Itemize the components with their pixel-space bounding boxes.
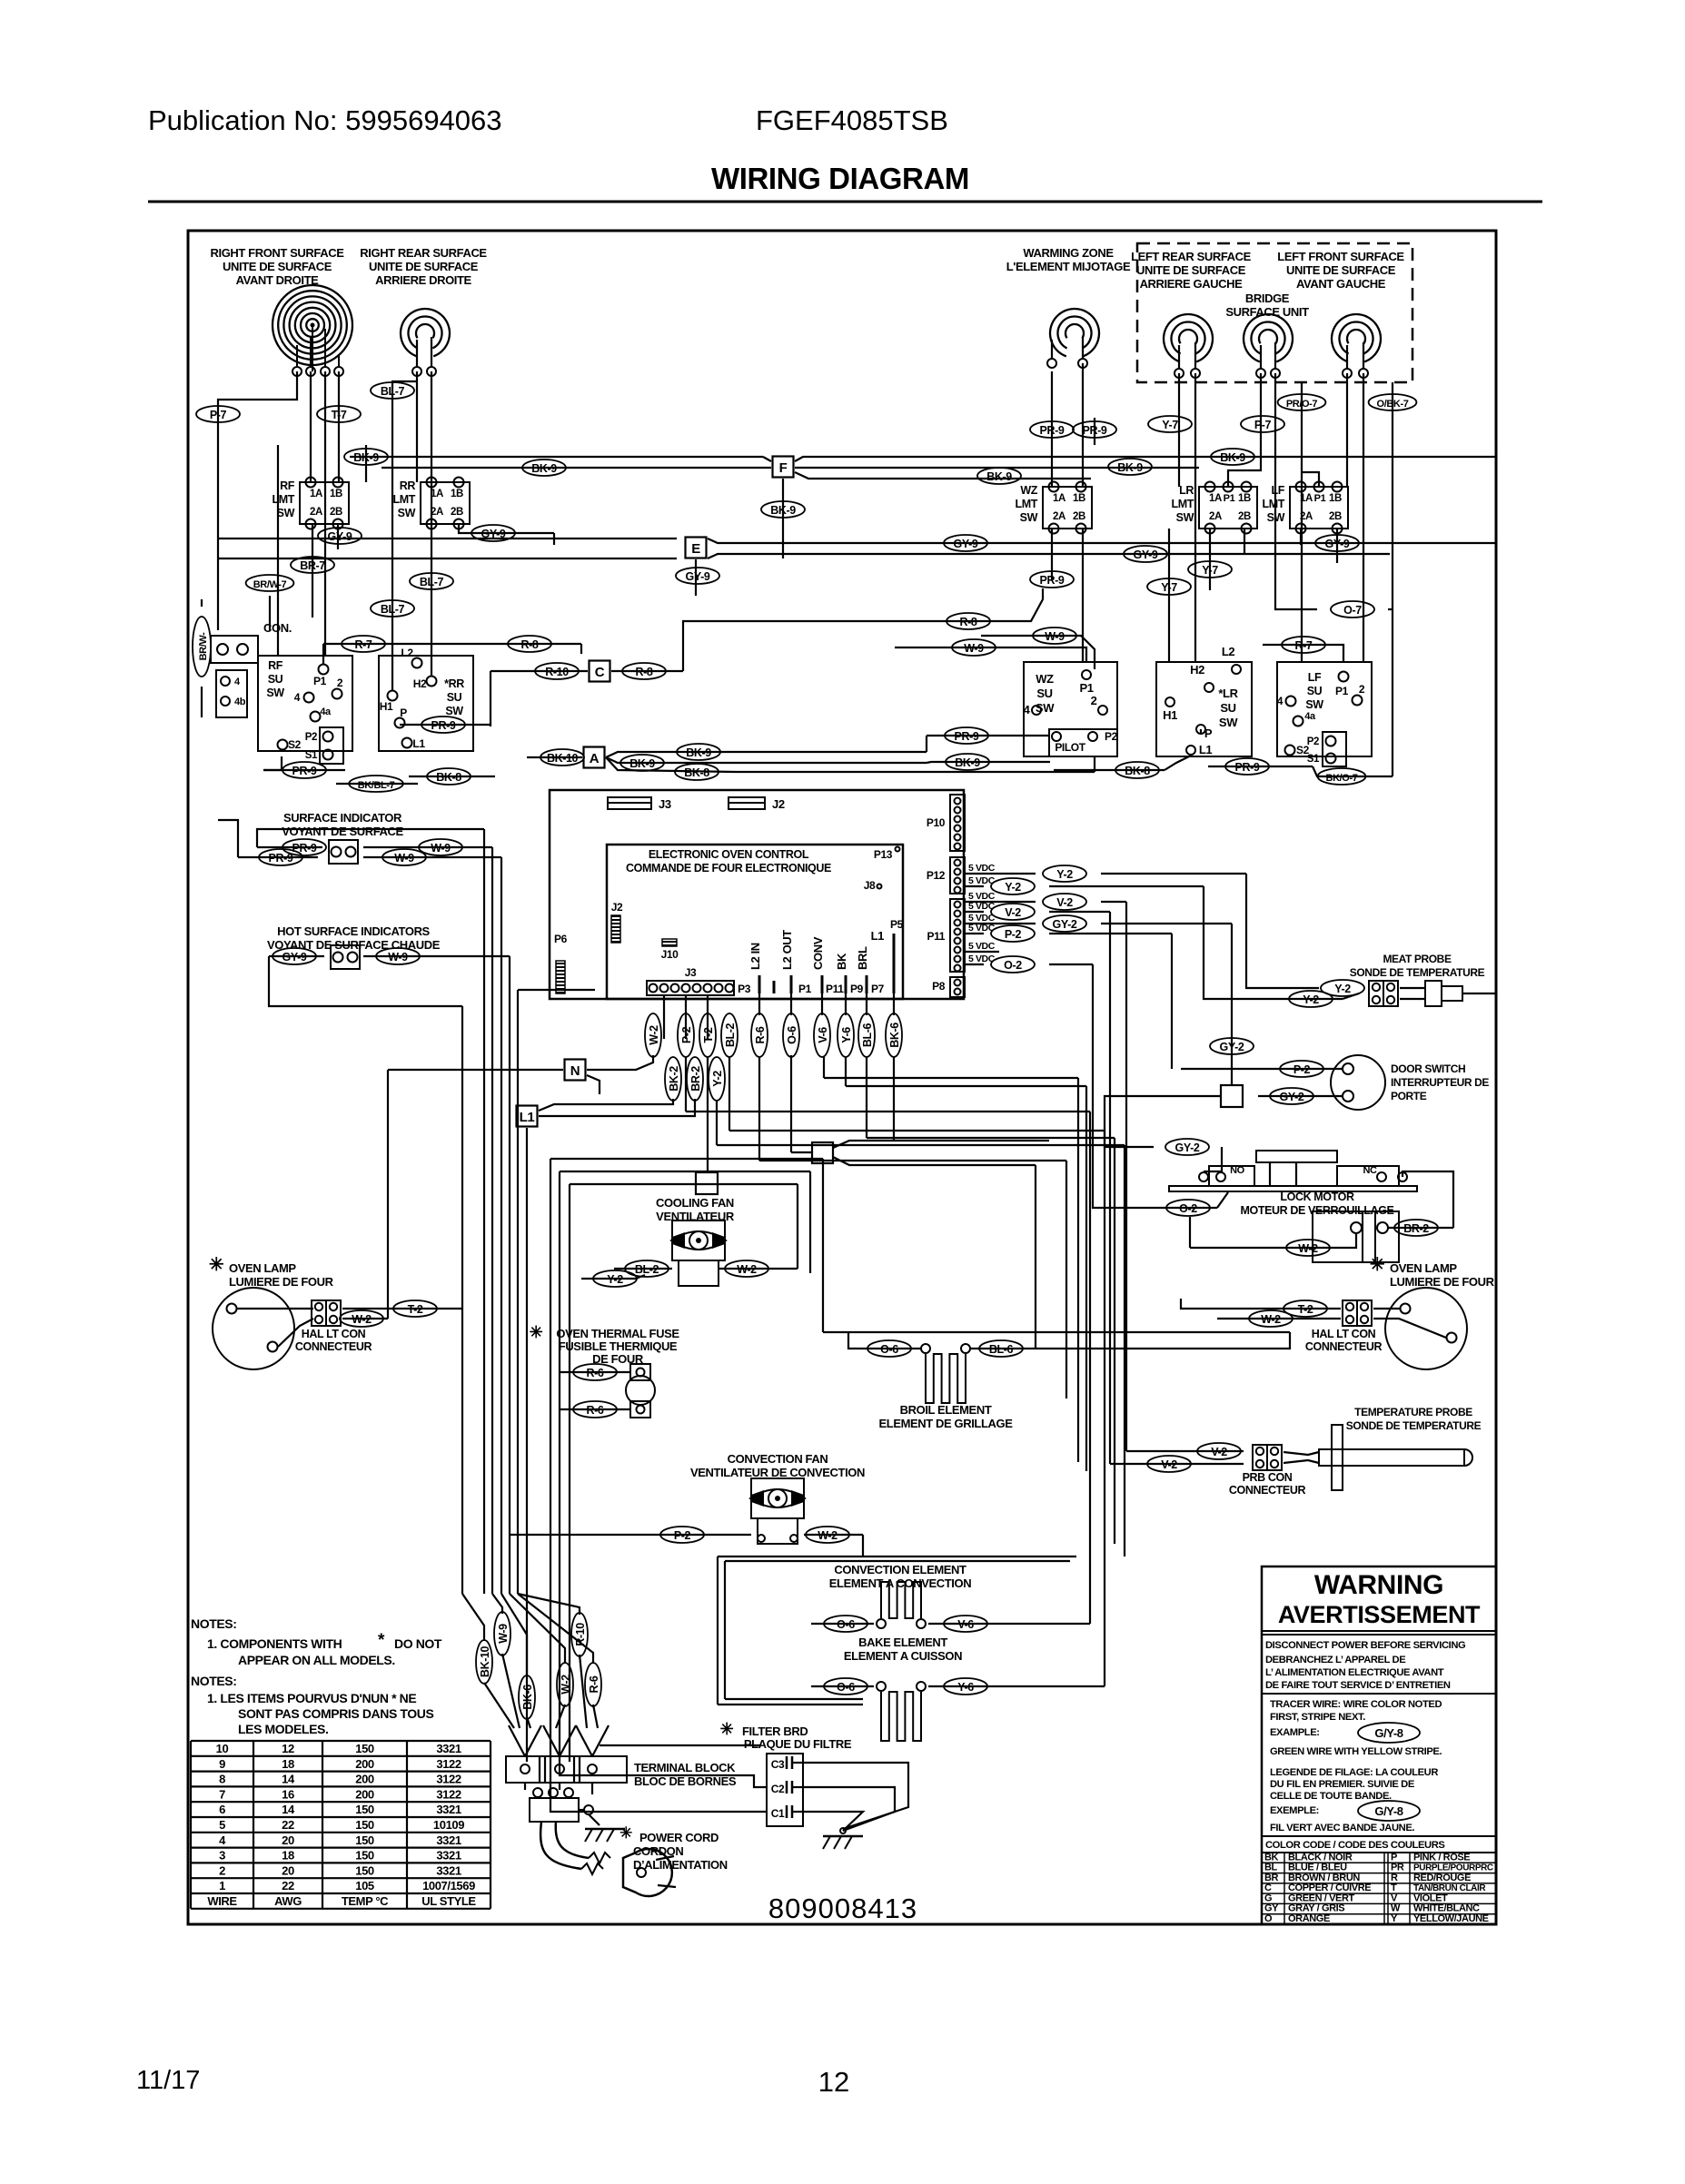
- junction node A: [584, 747, 605, 768]
- svg-text:TEMPERATURE PROBE: TEMPERATURE PROBE: [1354, 1406, 1472, 1418]
- svg-text:FGEF4085TSB: FGEF4085TSB: [756, 104, 948, 136]
- wire LR drops: [1209, 529, 1211, 590]
- svg-text:WHITE/BLANC: WHITE/BLANC: [1413, 1903, 1480, 1914]
- svg-text:BRIDGE: BRIDGE: [1245, 292, 1290, 305]
- wire LF leads: [1346, 373, 1348, 487]
- oval PR-9 pilot: [945, 727, 988, 744]
- wire V-2 a: [1101, 901, 1126, 903]
- svg-text:O-6: O-6: [837, 1618, 855, 1631]
- svg-text:J8: J8: [864, 879, 876, 892]
- svg-text:P-7: P-7: [1254, 419, 1272, 431]
- svg-text:SU: SU: [1036, 687, 1052, 700]
- oval Y-2 mp2: [1272, 998, 1343, 1000]
- svg-text:YELLOW/JAUNE: YELLOW/JAUNE: [1413, 1913, 1489, 1924]
- oval P-2 door: [1181, 1068, 1343, 1070]
- bake element coil: [881, 1692, 921, 1741]
- oval R-8 mid: [495, 643, 581, 645]
- svg-text:VENTILATEUR DE CONVECTION: VENTILATEUR DE CONVECTION: [690, 1466, 865, 1479]
- svg-text:P10: P10: [927, 816, 946, 829]
- oval BR-2: [1388, 1227, 1453, 1229]
- svg-text:V-2: V-2: [1005, 906, 1021, 919]
- svg-text:SW: SW: [1036, 701, 1055, 715]
- svg-text:L1: L1: [1199, 743, 1213, 756]
- svg-text:2: 2: [337, 677, 343, 689]
- meat probe body: [1400, 987, 1425, 989]
- oval G/Y-8 example1: [1358, 1723, 1420, 1743]
- svg-text:RF: RF: [268, 659, 283, 672]
- svg-text:T: T: [1391, 1883, 1397, 1893]
- svg-text:PORTE: PORTE: [1391, 1090, 1427, 1102]
- oval R-10: [491, 670, 588, 672]
- svg-text:NO: NO: [1230, 1165, 1245, 1176]
- svg-text:S1: S1: [305, 750, 318, 761]
- svg-text:OVEN THERMAL FUSE: OVEN THERMAL FUSE: [556, 1327, 679, 1340]
- svg-text:RF: RF: [280, 479, 295, 492]
- filter board box: [767, 1754, 803, 1826]
- svg-text:BR-2: BR-2: [689, 1066, 702, 1092]
- color code table: [1262, 1862, 1496, 1863]
- svg-text:GY-2: GY-2: [1175, 1141, 1200, 1154]
- svg-text:Y-2: Y-2: [1303, 993, 1319, 1006]
- svg-text:R-8: R-8: [521, 638, 539, 651]
- svg-text:Y-2: Y-2: [607, 1273, 623, 1286]
- svg-text:W-9: W-9: [388, 951, 408, 964]
- oval W-2 hal right: [1217, 1318, 1341, 1319]
- oval BK/BL-7: [336, 783, 418, 785]
- switch LF LMT SW: [1290, 487, 1348, 529]
- broil element coil: [926, 1354, 966, 1403]
- lock motor bar: [1169, 1186, 1417, 1191]
- svg-text:1B: 1B: [330, 489, 342, 499]
- svg-text:DOOR SWITCH: DOOR SWITCH: [1391, 1062, 1465, 1075]
- svg-text:2A: 2A: [431, 507, 443, 518]
- svg-text:L'ELEMENT MIJOTAGE: L'ELEMENT MIJOTAGE: [1006, 260, 1131, 273]
- svg-text:ELEMENT A CUISSON: ELEMENT A CUISSON: [844, 1649, 962, 1663]
- wire T-2 to cooling junction: [707, 1057, 709, 1172]
- conv element coil: [881, 1582, 921, 1618]
- svg-text:C1: C1: [771, 1807, 785, 1820]
- oval BL-7 lower2: [371, 600, 414, 617]
- oval Y-2 mp1: [1321, 980, 1364, 996]
- svg-text:VIOLET: VIOLET: [1413, 1892, 1448, 1903]
- oval BK-9 pilot: [946, 754, 989, 770]
- svg-text:BK: BK: [835, 953, 848, 970]
- mid horizontal bundle: [824, 1077, 1078, 1079]
- oval GY-9 hs: [273, 948, 316, 964]
- svg-text:3122: 3122: [436, 1757, 461, 1771]
- svg-text:P5: P5: [890, 918, 904, 931]
- svg-text:R-10: R-10: [574, 1623, 587, 1646]
- svg-text:BR/W-7: BR/W-7: [253, 579, 287, 590]
- svg-text:✳: ✳: [1370, 1255, 1385, 1275]
- svg-text:P1: P1: [1224, 493, 1235, 504]
- svg-text:Y-2: Y-2: [1005, 881, 1021, 894]
- svg-text:J2: J2: [611, 901, 623, 914]
- connector P12: [950, 857, 965, 894]
- svg-text:16: 16: [282, 1787, 294, 1801]
- svg-text:1: 1: [219, 1879, 225, 1892]
- svg-text:HOT SURFACE INDICATORS: HOT SURFACE INDICATORS: [277, 924, 430, 938]
- lock NO contact: [1209, 1166, 1254, 1186]
- wire BK-9 left: [365, 445, 367, 457]
- svg-text:J2: J2: [772, 797, 785, 811]
- svg-text:FIRST, STRIPE NEXT.: FIRST, STRIPE NEXT.: [1270, 1712, 1365, 1723]
- svg-text:BL-7: BL-7: [381, 603, 405, 616]
- svg-text:11/17: 11/17: [136, 2066, 200, 2095]
- oval G/Y-8 example2: [1358, 1801, 1420, 1821]
- svg-text:CONVECTION FAN: CONVECTION FAN: [728, 1452, 828, 1466]
- svg-text:W-9: W-9: [1045, 630, 1065, 643]
- svg-text:7: 7: [219, 1787, 225, 1801]
- oven lamp left circle: [213, 1288, 294, 1369]
- oval W-2 lock: [1344, 1233, 1356, 1248]
- svg-text:1A: 1A: [310, 489, 322, 499]
- svg-text:R-6: R-6: [587, 1367, 604, 1379]
- svg-text:L2 IN: L2 IN: [748, 943, 762, 970]
- svg-text:R: R: [1391, 1873, 1398, 1883]
- oval O-2 lock: [1154, 1207, 1217, 1209]
- svg-text:W-2: W-2: [352, 1313, 372, 1326]
- svg-text:5: 5: [219, 1818, 225, 1832]
- oval BK-9 left: [344, 449, 388, 465]
- svg-text:R-8: R-8: [960, 616, 977, 628]
- svg-text:Y-6: Y-6: [957, 1681, 974, 1694]
- coil RR surface element: [401, 309, 450, 356]
- wire RR coil leads: [416, 371, 418, 482]
- svg-text:R-7: R-7: [1295, 639, 1313, 652]
- oval PR/O-7: [1301, 382, 1303, 662]
- svg-text:Y-7: Y-7: [1162, 419, 1178, 431]
- filter wires: [600, 1744, 761, 1746]
- svg-text:LMT: LMT: [393, 493, 416, 506]
- svg-text:2A: 2A: [310, 507, 322, 518]
- junction node L1: [517, 1106, 538, 1127]
- oval R-6 j3: [758, 993, 760, 1015]
- switch PILOT: [1049, 729, 1117, 756]
- wire bridge leads: [1228, 373, 1261, 487]
- svg-text:4: 4: [219, 1833, 226, 1847]
- oval PR-9 rf: [263, 756, 282, 770]
- oval R-6 tf2: [560, 1408, 630, 1410]
- svg-text:L1: L1: [871, 929, 885, 943]
- svg-text:BK-10: BK-10: [547, 752, 579, 765]
- terminal block bar: [506, 1756, 627, 1783]
- svg-text:3321: 3321: [436, 1833, 461, 1847]
- svg-text:H2: H2: [413, 677, 427, 690]
- svg-text:OVEN LAMP: OVEN LAMP: [229, 1261, 296, 1275]
- svg-text:PR/O-7: PR/O-7: [1286, 399, 1318, 410]
- svg-text:INTERRUPTEUR DE: INTERRUPTEUR DE: [1391, 1076, 1489, 1089]
- oval W-2 cf: [719, 1268, 798, 1270]
- svg-text:SONT PAS COMPRIS DANS TOUS: SONT PAS COMPRIS DANS TOUS: [238, 1706, 434, 1721]
- svg-text:Y-2: Y-2: [711, 1071, 724, 1087]
- switch LR SU SW: [1156, 662, 1252, 756]
- svg-text:TRACER WIRE: WIRE COLOR: TRACER WIRE: WIRE COLOR NOTED: [1270, 1699, 1442, 1710]
- svg-text:UNITE DE SURFACE: UNITE DE SURFACE: [223, 260, 332, 273]
- wire warming leads: [1051, 371, 1053, 487]
- svg-text:1A: 1A: [431, 489, 443, 499]
- meat probe connector: [1369, 981, 1398, 1006]
- conv element terminals: [877, 1619, 886, 1628]
- svg-text:BL-2: BL-2: [635, 1263, 659, 1276]
- svg-text:3: 3: [219, 1849, 225, 1863]
- svg-text:SURFACE INDICATOR: SURFACE INDICATOR: [283, 811, 402, 825]
- wire lamp right runs: [1217, 1308, 1258, 1309]
- oval R-7 mid: [322, 644, 324, 664]
- oval GY-9 under E: [676, 568, 719, 584]
- svg-text:BK-9: BK-9: [986, 470, 1012, 483]
- svg-text:150: 150: [355, 1803, 374, 1816]
- svg-text:WARMING ZONE: WARMING ZONE: [1023, 246, 1114, 260]
- switch RF LMT SW: [300, 482, 349, 524]
- svg-text:22: 22: [282, 1879, 294, 1892]
- svg-text:LMT: LMT: [1172, 498, 1194, 510]
- oval GY-2 a: [1043, 915, 1086, 932]
- svg-text:BR: BR: [1264, 1873, 1279, 1883]
- svg-text:R-7: R-7: [355, 638, 372, 651]
- oval W-9 bottom: [494, 1612, 510, 1655]
- svg-text:6: 6: [219, 1803, 225, 1816]
- oval R-7 right: [1263, 645, 1343, 662]
- svg-text:SURFACE UNIT: SURFACE UNIT: [1225, 305, 1309, 319]
- svg-text:UNITE DE SURFACE: UNITE DE SURFACE: [369, 260, 479, 273]
- J3 pin wires down: [652, 994, 654, 996]
- svg-text:T-2: T-2: [1298, 1303, 1313, 1316]
- svg-text:CONNECTEUR: CONNECTEUR: [1305, 1340, 1383, 1353]
- bundle diagonals to ovals: [462, 1594, 484, 1641]
- thermal fuse body: [630, 1364, 650, 1380]
- element enclosure box: [718, 1556, 1076, 1557]
- svg-text:*LR: *LR: [1218, 687, 1238, 700]
- oval BK-9 right2: [1108, 459, 1152, 475]
- junction node F: [350, 456, 763, 458]
- svg-text:W-2: W-2: [1261, 1313, 1281, 1326]
- svg-text:P11: P11: [927, 930, 946, 943]
- svg-text:BK/BL-7: BK/BL-7: [358, 780, 395, 791]
- svg-text:P1: P1: [1314, 493, 1326, 504]
- svg-text:C: C: [1264, 1883, 1272, 1893]
- oval BK-10: [527, 756, 582, 758]
- svg-text:14: 14: [282, 1773, 295, 1786]
- oval Y-6 j3: [845, 993, 847, 1015]
- oval BK-6 bottom: [519, 1675, 535, 1719]
- svg-text:P-7: P-7: [210, 409, 227, 421]
- svg-text:HAL LT CON: HAL LT CON: [1312, 1328, 1376, 1340]
- warning box border: [1262, 1566, 1496, 1924]
- oval W-9 right1: [981, 636, 1095, 669]
- coil RF surface element: [273, 285, 352, 365]
- svg-text:150: 150: [355, 1833, 374, 1847]
- svg-text:CONV: CONV: [811, 936, 825, 970]
- svg-text:A: A: [590, 751, 600, 766]
- svg-text:RIGHT FRONT SURFACE: RIGHT FRONT SURFACE: [211, 246, 345, 260]
- svg-text:5 VDC: 5 VDC: [968, 863, 996, 874]
- svg-text:DEBRANCHEZ L’ APPAREL DE: DEBRANCHEZ L’ APPAREL DE: [1265, 1655, 1406, 1665]
- svg-text:FILTER BRD: FILTER BRD: [742, 1724, 808, 1738]
- oval PR-9 wz3: [1030, 571, 1074, 588]
- svg-text:4: 4: [294, 691, 301, 704]
- svg-text:150: 150: [355, 1742, 374, 1755]
- svg-text:PR-9: PR-9: [292, 842, 317, 855]
- svg-text:BK: BK: [1264, 1852, 1279, 1863]
- svg-text:PINK / ROSE: PINK / ROSE: [1413, 1852, 1470, 1863]
- svg-text:G/Y-8: G/Y-8: [1374, 1726, 1403, 1740]
- svg-text:4: 4: [1024, 703, 1031, 716]
- oval O-6 bake: [811, 1685, 874, 1687]
- svg-text:L’ ALIMENTATION ELECTRIQUE: L’ ALIMENTATION ELECTRIQUE AVANT: [1265, 1667, 1444, 1678]
- svg-text:BK-9: BK-9: [1117, 461, 1143, 474]
- svg-text:W-2: W-2: [1298, 1242, 1318, 1255]
- svg-text:R-10: R-10: [545, 666, 569, 678]
- svg-text:LEFT REAR SURFACE: LEFT REAR SURFACE: [1131, 250, 1252, 263]
- svg-text:ORANGE: ORANGE: [1288, 1913, 1330, 1924]
- svg-text:3321: 3321: [436, 1863, 461, 1877]
- svg-text:1007/1569: 1007/1569: [422, 1879, 475, 1892]
- bundle diagonals to terminal funnels: [484, 1683, 514, 1728]
- svg-text:BK-8: BK-8: [1125, 765, 1150, 777]
- oval P-7: [196, 406, 240, 422]
- svg-text:FIL VERT AVEC BANDE JA: FIL VERT AVEC BANDE JAUNE.: [1270, 1823, 1414, 1833]
- EOC inner box: [607, 845, 903, 999]
- connector J10: [662, 939, 677, 946]
- svg-text:PR-9: PR-9: [431, 719, 456, 732]
- wire BK buses to pilot: [736, 751, 927, 753]
- svg-text:BL: BL: [1264, 1863, 1278, 1873]
- svg-text:SW: SW: [1176, 511, 1194, 524]
- junction square door: [1221, 1085, 1243, 1107]
- svg-text:H1: H1: [380, 700, 393, 713]
- terminal block funnels: [509, 1725, 525, 1756]
- svg-text:3321: 3321: [436, 1849, 461, 1863]
- connector P11: [950, 899, 965, 972]
- svg-text:Y: Y: [1391, 1913, 1398, 1924]
- svg-text:1. COMPONENTS WITH: 1. COMPONENTS WITH: [207, 1636, 342, 1651]
- svg-text:Y-7: Y-7: [1161, 581, 1177, 594]
- switch RR SU SW: [379, 656, 473, 751]
- oval P-7 bridge: [1241, 416, 1284, 432]
- svg-text:*RR: *RR: [444, 677, 464, 690]
- svg-text:150: 150: [355, 1863, 374, 1877]
- svg-text:SW: SW: [398, 507, 416, 519]
- svg-text:P-2: P-2: [674, 1529, 691, 1542]
- svg-text:R-8: R-8: [636, 666, 653, 678]
- junction node C: [590, 661, 610, 682]
- svg-text:Y-6: Y-6: [840, 1027, 853, 1043]
- svg-text:PR-9: PR-9: [1235, 761, 1260, 774]
- svg-text:LR: LR: [1179, 484, 1194, 497]
- cooling fan nested boxes: [550, 1158, 823, 1160]
- svg-text:BK-9: BK-9: [770, 504, 796, 517]
- oval BK-9 right3: [1211, 449, 1254, 465]
- svg-text:T-7: T-7: [332, 409, 347, 421]
- svg-text:CONNECTEUR: CONNECTEUR: [295, 1340, 372, 1353]
- oval W-9 si2: [382, 849, 426, 865]
- connector CON: [211, 636, 258, 663]
- svg-text:PR-9: PR-9: [1040, 574, 1065, 587]
- svg-text:G: G: [1264, 1892, 1272, 1903]
- svg-text:S2: S2: [288, 738, 302, 751]
- svg-text:2A: 2A: [1209, 511, 1222, 522]
- oval BK-9 afterA1: [677, 744, 720, 760]
- main diagram border: [188, 231, 1496, 1924]
- svg-text:BR/W-: BR/W-: [198, 632, 209, 661]
- svg-text:EXAMPLE:: EXAMPLE:: [1270, 1727, 1320, 1738]
- power plug: [623, 1849, 672, 1896]
- svg-text:P1: P1: [313, 675, 327, 687]
- svg-text:P2: P2: [1307, 736, 1319, 747]
- junction square L2OUT: [812, 1142, 833, 1163]
- svg-text:1B: 1B: [1238, 493, 1251, 504]
- svg-text:BL-7: BL-7: [420, 576, 444, 588]
- svg-text:GY-9: GY-9: [1134, 548, 1158, 561]
- wire BK-6 to broil feed: [893, 1057, 895, 1141]
- svg-text:BK-9: BK-9: [955, 756, 980, 769]
- svg-text:105: 105: [355, 1879, 374, 1892]
- svg-text:W-2: W-2: [560, 1675, 572, 1695]
- svg-text:200: 200: [355, 1773, 374, 1786]
- svg-text:P13: P13: [874, 848, 893, 861]
- oval PR-9 L: [1200, 729, 1202, 734]
- svg-text:2: 2: [219, 1863, 225, 1877]
- svg-text:P9: P9: [850, 983, 864, 995]
- svg-text:8: 8: [219, 1773, 225, 1786]
- switch WZ LMT SW: [1043, 487, 1092, 529]
- svg-text:P-2: P-2: [680, 1026, 693, 1043]
- surface indicator connector: [329, 840, 358, 864]
- wire O-2 b: [1049, 964, 1093, 965]
- wire GY-2 a: [1101, 923, 1232, 924]
- svg-text:BL-6: BL-6: [861, 1023, 874, 1047]
- svg-text:P7: P7: [871, 983, 885, 995]
- svg-text:12: 12: [818, 2066, 849, 2098]
- svg-text:1. LES ITEMS POURVUS D'NUN *: 1. LES ITEMS POURVUS D'NUN * NE: [207, 1691, 416, 1705]
- svg-text:W-2: W-2: [737, 1263, 757, 1276]
- svg-text:O-6: O-6: [837, 1681, 855, 1694]
- svg-text:GY-9: GY-9: [328, 530, 352, 543]
- svg-text:BK/O-7: BK/O-7: [1326, 773, 1358, 784]
- svg-text:GY-2: GY-2: [1220, 1041, 1244, 1053]
- svg-text:BAKE ELEMENT: BAKE ELEMENT: [858, 1636, 947, 1649]
- svg-text:150: 150: [355, 1818, 374, 1832]
- oval V-2 b: [991, 904, 1035, 920]
- svg-text:4b: 4b: [234, 697, 246, 707]
- svg-text:LMT: LMT: [1016, 498, 1038, 510]
- svg-text:AWG: AWG: [274, 1894, 302, 1908]
- oval PR-9 si2: [259, 849, 302, 865]
- oval GY-2 mid: [1210, 1038, 1254, 1054]
- svg-text:Y-2: Y-2: [1334, 983, 1351, 995]
- oval BK-8 L1: [1165, 756, 1191, 770]
- svg-text:P-2: P-2: [1005, 928, 1022, 941]
- oval BK-10 bottom: [476, 1640, 492, 1684]
- svg-text:4: 4: [1277, 695, 1284, 707]
- svg-text:DO NOT: DO NOT: [394, 1636, 442, 1651]
- oval V-2 a: [1043, 894, 1086, 910]
- oval V-2 tp1: [1126, 1450, 1244, 1452]
- svg-text:✳: ✳: [720, 1720, 734, 1738]
- oval W-9 si1: [419, 839, 462, 855]
- oval GY-9 LR: [1124, 546, 1167, 562]
- oval R-8 after C: [611, 670, 683, 672]
- svg-text:150: 150: [355, 1849, 374, 1863]
- oval R-10 bottom: [571, 1613, 588, 1656]
- svg-text:E: E: [691, 541, 700, 557]
- oval BL-6 broil: [979, 1340, 1023, 1357]
- wire P-2 b: [1049, 933, 1172, 934]
- convection fan symbol: [751, 1478, 804, 1518]
- oval BL-6 j3: [866, 993, 867, 1015]
- svg-text:LOCK MOTOR: LOCK MOTOR: [1280, 1191, 1354, 1203]
